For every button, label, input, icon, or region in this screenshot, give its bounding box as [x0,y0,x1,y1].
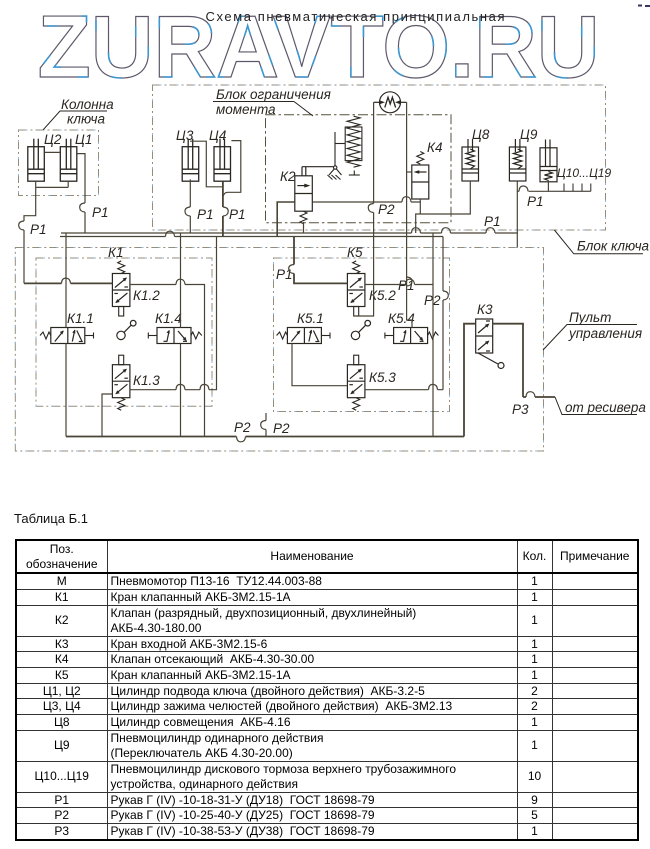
crossing hop c [176,384,185,389]
svg-text:Р1: Р1 [197,207,214,222]
wire riser x=180.5 to К1.4 [180,233,182,437]
frame box: Колонна ключа [19,130,99,196]
svg-text:Ц9: Ц9 [520,127,538,142]
svg-text:Р1: Р1 [484,214,501,229]
valve К5.4 [394,328,428,344]
wire Ц8 bottom [416,181,471,233]
valve К2 [295,167,334,224]
svg-text:Р2: Р2 [378,202,395,217]
leader Блок ключа [554,230,643,254]
wire supply to К3 (thick) [464,324,476,437]
leader Колонна ключа [43,111,107,130]
svg-text:К5.4: К5.4 [388,311,415,326]
wire Р2 drop [265,413,267,437]
svg-text:К5: К5 [347,245,363,260]
svg-text:Р1: Р1 [92,205,109,220]
svg-text:Р1: Р1 [229,207,246,222]
cylinder Ц2 [28,139,45,182]
leader Блок ограничения момента [213,102,313,117]
hose loop Р2 x=443 [443,291,448,300]
hose loop symbols [19,186,535,442]
leader от ресивера [555,397,637,415]
wire Ц2/Ц1 bottoms to riser x=24 [24,181,68,283]
wires lower section [24,233,555,437]
hose loop Р1 band a [412,228,421,233]
wire K4 pilot [407,171,412,173]
crossing hop g [429,384,438,389]
hose loop Р1 x=24 [19,221,24,230]
svg-text:Р2: Р2 [234,420,251,435]
svg-text:Р1: Р1 [276,267,293,282]
hose loop Р1 x=406 [407,277,412,286]
wire Ц3 bottom riser x=190 [189,179,191,233]
hose loop Р2 x=373 [368,204,373,213]
svg-text:Р1: Р1 [30,222,47,237]
svg-text:Р2: Р2 [273,421,290,436]
wire K2 frame [277,202,295,237]
wire M left riser [356,102,373,316]
wire Ц4 riser x=222 [222,182,224,237]
cylinder Ц3 [182,139,199,182]
crossing hop d [200,384,209,389]
wire К5.2 out right [365,284,433,286]
svg-text:К1.1: К1.1 [67,311,94,326]
valve К1.1 [51,328,85,344]
crossing hop b [176,279,185,284]
hose loop Р1 x=190 [185,207,190,216]
manual lever К1 [117,320,136,339]
wires top band [24,102,548,327]
svg-text:Схема пневматическая принципиа: Схема пневматическая принципиальная [206,9,505,24]
valve К5.1 [287,328,321,344]
callout leaders [43,102,643,415]
wire P1 feed to К1.2 (thick) [24,282,112,284]
svg-text:К1.4: К1.4 [155,311,182,326]
wire pair lower [60,236,443,238]
svg-text:Блок ключа: Блок ключа [577,239,650,254]
svg-text:К1.3: К1.3 [133,373,160,388]
svg-text:К1.2: К1.2 [133,288,160,303]
cylinder Ц1 [60,139,77,182]
valve К1.3 [112,365,129,398]
hose loop Р3 [526,392,535,397]
frame box: group К1 [36,258,212,406]
wire riser x=443 [442,237,444,390]
motor M [374,92,407,113]
wire riser x=433 [432,233,434,437]
wire K4 bottom drop [419,199,421,214]
crossing hop f [406,279,415,284]
svg-text:от ресивера: от ресивера [565,400,646,415]
frame box: Блок ключа [153,85,606,230]
svg-text:Ц10...Ц19: Ц10...Ц19 [557,166,611,180]
cylinder Ц10...Ц19 [540,140,557,182]
svg-text:ключа: ключа [67,112,106,127]
hose loop Р2 bottom wire [237,437,246,442]
hose loop Р1 near Ц9 [519,186,528,191]
valve К1.4 [157,328,191,344]
hose loop Р1 band b [442,228,451,233]
wire К5.3 out right [365,389,443,391]
wire riser x=66 [65,233,67,437]
torque limiter spring element [328,116,362,179]
svg-text:Ц8: Ц8 [472,127,490,142]
wire Ц2-Ц1 top link [44,151,60,153]
cylinder Ц8 [462,139,479,181]
valve К5.2 [347,274,365,307]
svg-text:К1: К1 [108,245,123,260]
frame box: group К5 [274,258,450,412]
svg-text:К5.1: К5.1 [297,311,324,326]
svg-text:К5.3: К5.3 [369,370,396,385]
crossing hop h [166,231,175,236]
svg-text:К2: К2 [280,169,296,184]
cylinder Ц9 [509,139,526,181]
manual lever К5 [351,320,370,339]
crossing hop a [62,278,71,283]
frame box: Блок ограничения момента (dashed) [266,115,452,223]
wire Ц4 wrap [223,141,241,196]
valve К4 [412,152,429,200]
frame box: Пульт управления [15,248,543,452]
svg-text:Ц1: Ц1 [75,132,92,147]
svg-text:Р1: Р1 [527,194,544,209]
multiplicity comb for Ц10...Ц19 [548,184,590,192]
wire К1.2 out right [130,285,205,437]
wire К1.3 out right [130,237,217,390]
wire K2 out to K4 net [313,201,421,203]
valve К1.2 [112,274,129,307]
svg-text:К4: К4 [427,140,442,155]
wire Ц1 to P1 riser x=85 [77,154,85,233]
cylinder Ц4 [214,139,231,182]
wire Ц9 riser [516,180,518,247]
wire К5.3 left link [292,344,347,386]
svg-text:Ц4: Ц4 [209,128,226,143]
svg-text:управления: управления [568,326,642,341]
leader Пульт управления [543,325,637,351]
wire К1.3 left drop [102,394,112,437]
hose loop Р1 К5 feed [289,265,294,274]
wire Ц3 wrap [190,141,223,187]
hose loop Р1 x=222 [223,207,228,216]
hose loop Р1 band c [486,228,495,233]
svg-text:момента: момента [216,102,276,117]
wire K2 bottom drop [303,222,305,233]
valve К5.3 [347,365,365,398]
svg-text:Блок ограничения: Блок ограничения [216,87,331,102]
svg-text:Пульт: Пульт [569,310,611,325]
wire Ц9 to Ц10 comb [517,180,548,191]
svg-text:Ц2: Ц2 [44,132,62,147]
svg-text:Колонна: Колонна [61,97,114,112]
wire К3 out to Р3 [493,324,555,397]
wire M right riser [407,102,412,327]
wire pair upper [61,232,518,234]
svg-text:Р3: Р3 [512,402,529,417]
crossing hop e [402,197,411,202]
hose loop Р1 x=85 [80,203,85,212]
corner mark top-right [638,5,650,8]
hose loop Р2 drop [261,421,266,430]
valve К3 [476,319,504,369]
svg-text:К3: К3 [477,302,493,317]
wire P1 feed to К5.2 [294,237,347,284]
wire bottom long [66,436,464,438]
